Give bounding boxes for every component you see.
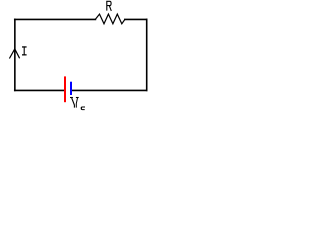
label I (current) [22,46,27,55]
wire bottom-right segment [72,89,147,91]
label epsilon subscript [81,107,85,110]
wire: circuit loop (left, right verticals; top/bottom segments) [15,19,147,90]
wire left vertical [14,19,16,90]
label R (resistor value label) [107,1,112,11]
wire right vertical [146,19,148,90]
wire top-right segment [125,18,147,20]
resistor R [95,14,125,24]
current arrow (on left wire, pointing up) [9,49,19,59]
wire top-left segment [15,18,96,20]
battery Vs positive plate (red, long) [64,76,66,102]
battery Vs negative plate (blue, short) [70,82,72,95]
label V (source voltage) [70,98,79,108]
wire bottom-left segment [15,89,64,91]
